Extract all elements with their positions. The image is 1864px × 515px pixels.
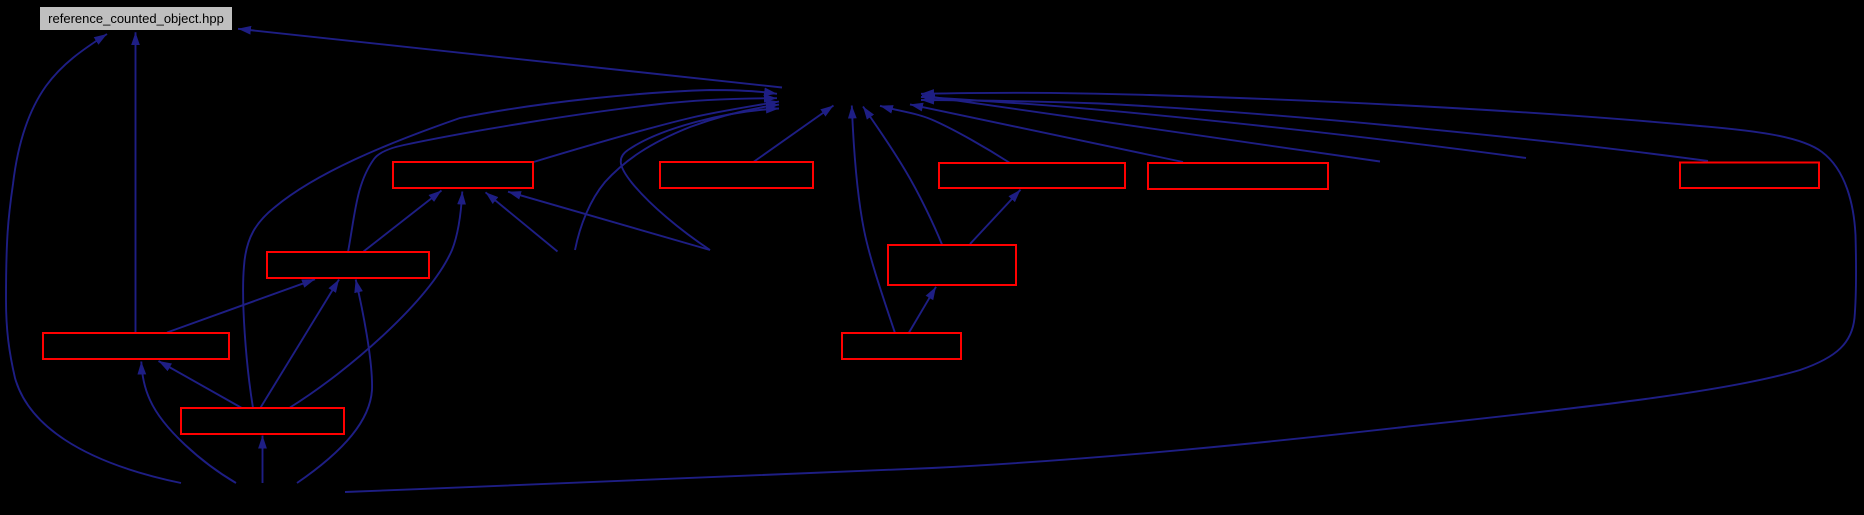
svg-text:reference_counted_object.hpp: reference_counted_object.hpp	[48, 11, 224, 26]
